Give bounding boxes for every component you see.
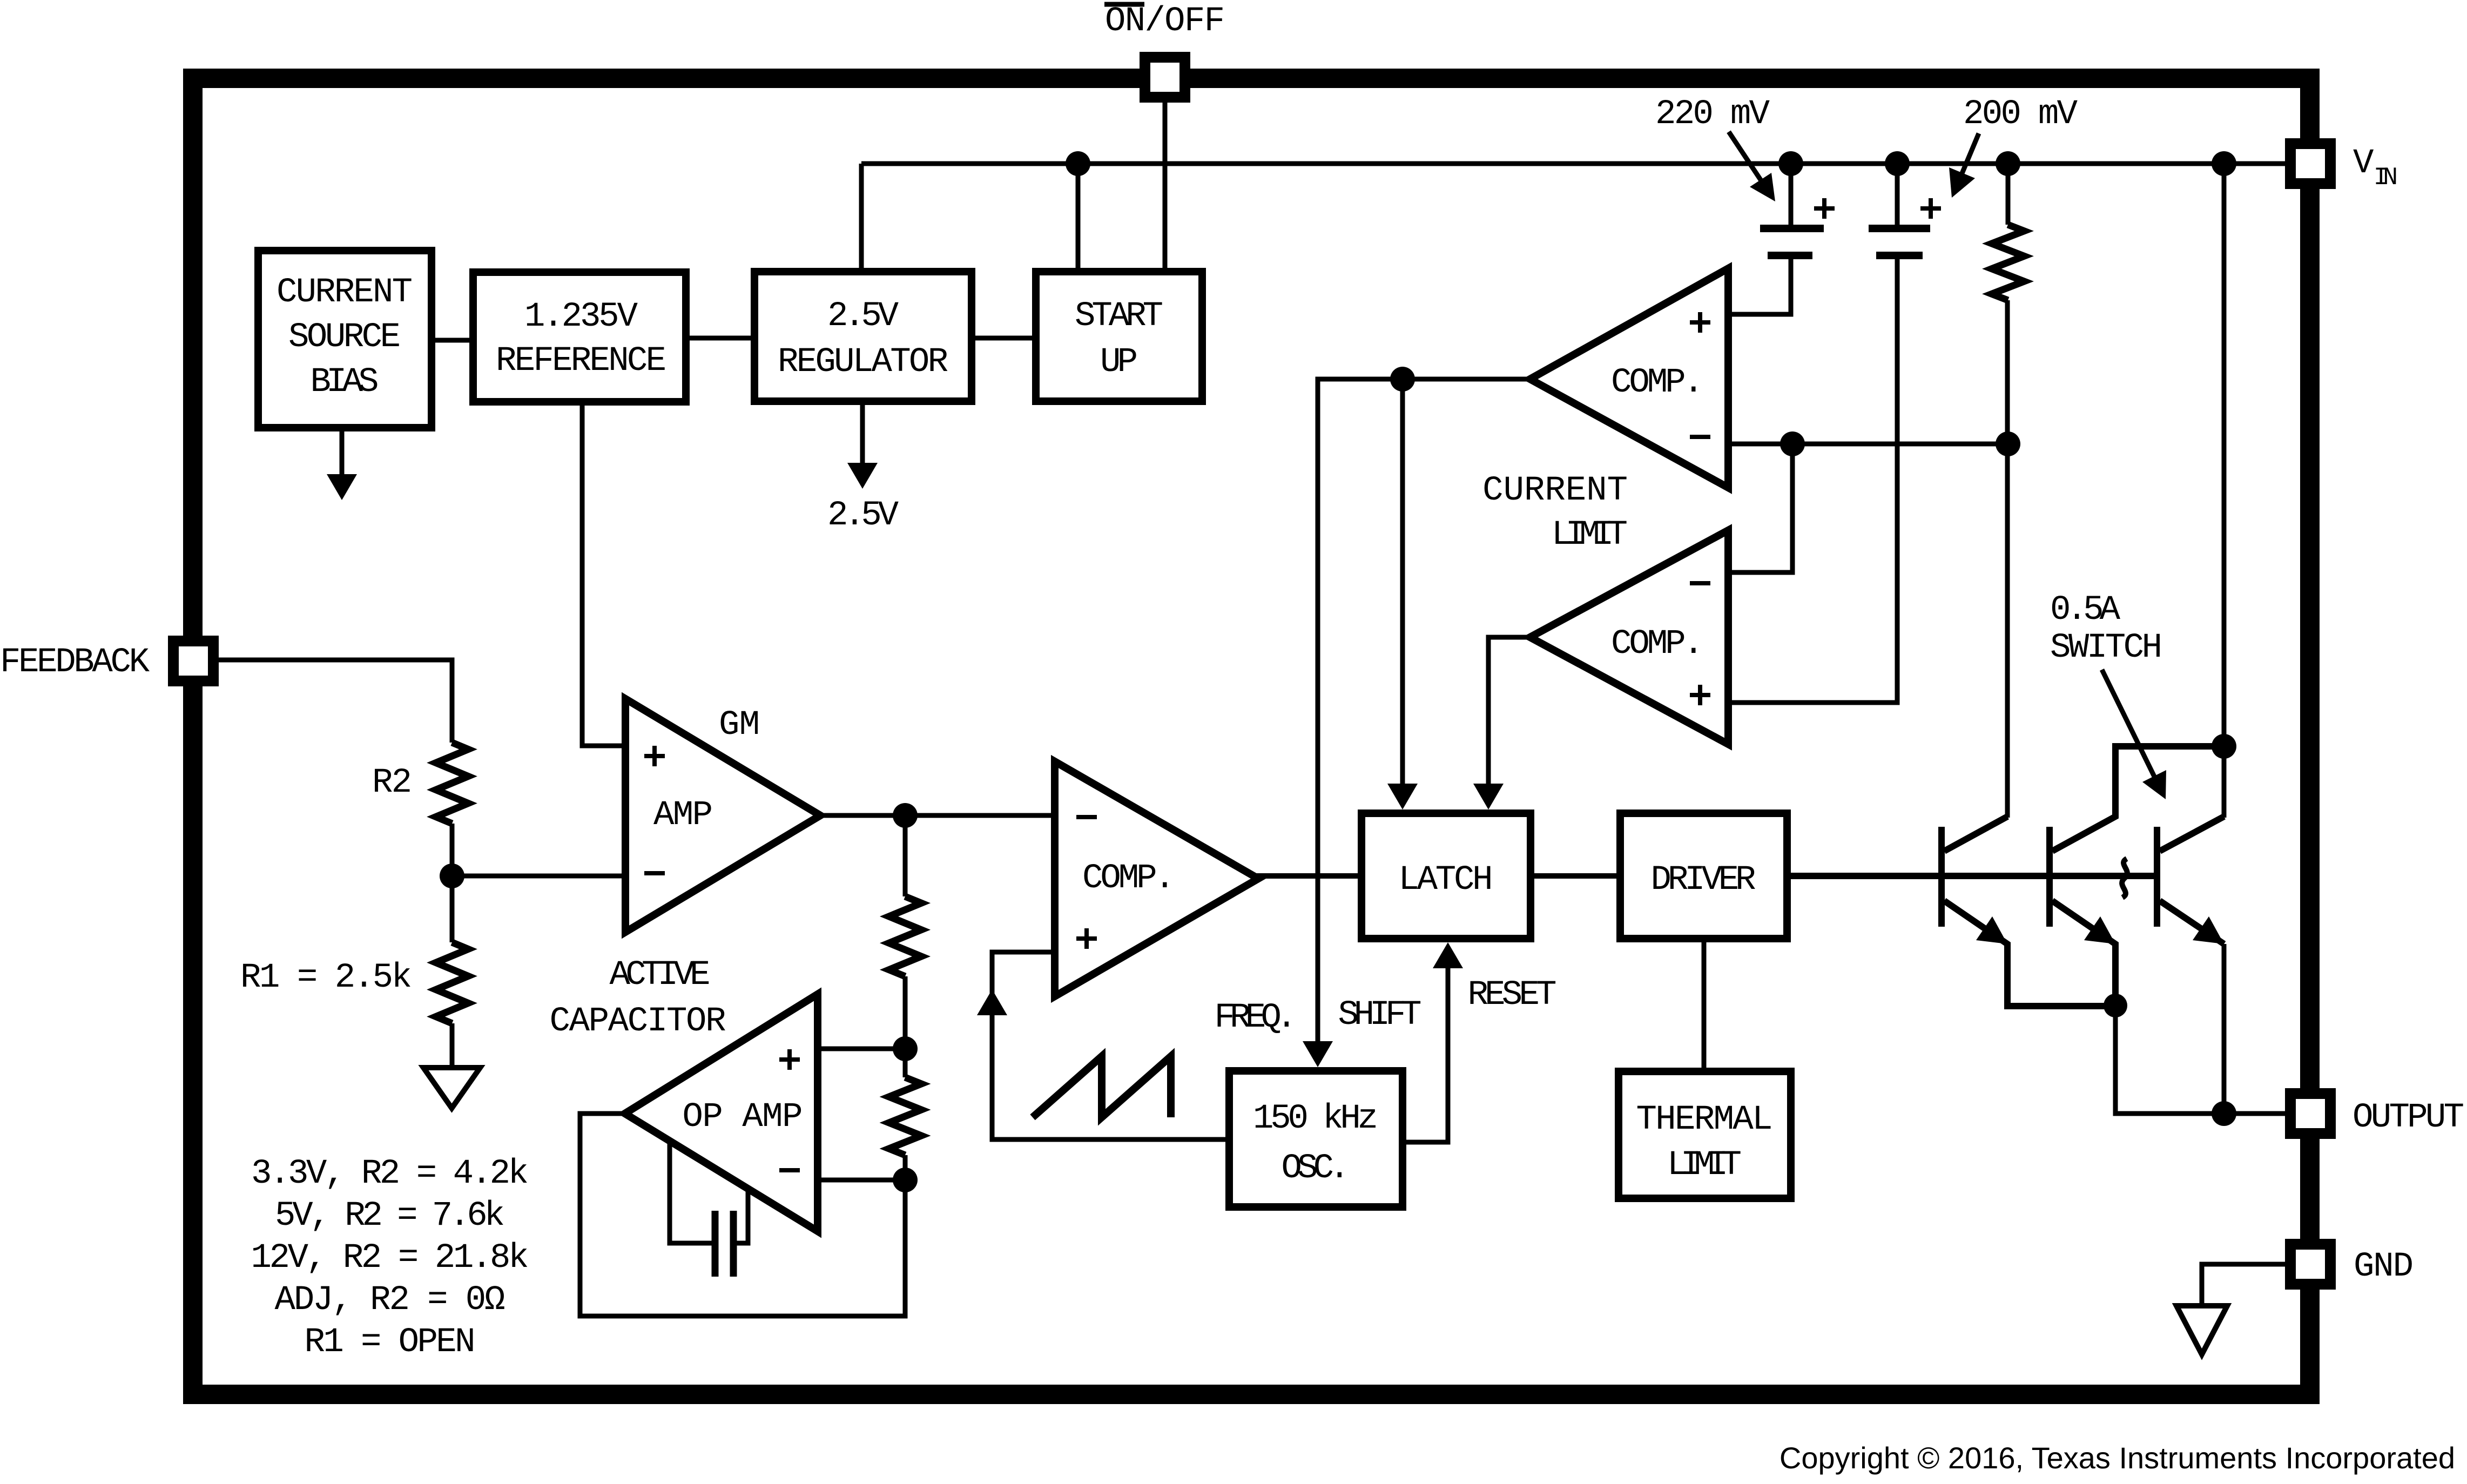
wire opamp plus input xyxy=(818,1047,905,1051)
junction node opamp plus tap xyxy=(893,1036,918,1061)
wire opamp cap left branch xyxy=(670,1141,712,1243)
pin OUTPUT xyxy=(2290,1094,2330,1134)
svg-text:GM: GM xyxy=(719,706,760,745)
minus sign main COMP xyxy=(1076,815,1097,819)
block 2.5V REGULATOR xyxy=(754,272,972,401)
wire R1 bottom to ground xyxy=(450,1023,455,1068)
arrowhead Q1 emitter xyxy=(1976,916,2007,944)
pin VIN xyxy=(2290,144,2330,184)
transistor Q1 base bar xyxy=(1938,827,1945,927)
resistor at VIN 200mV sense xyxy=(1992,225,2024,300)
wire oscillator reset output to LATCH xyxy=(1406,950,1448,1142)
pin GND xyxy=(2290,1244,2330,1284)
svg-text:RESET: RESET xyxy=(1468,976,1557,1015)
junction node VIN rail at sense resistor xyxy=(1996,151,2020,176)
wire ON/OFF pin down to START UP xyxy=(1163,103,1168,268)
transistor Q2 base bar xyxy=(2046,827,2053,927)
wire GM AMP output to main COMP minus input xyxy=(819,813,1055,818)
comparator main COMP (PWM) xyxy=(1055,761,1258,996)
minus sign COMP2 xyxy=(1690,581,1710,585)
svg-text:COMP.: COMP. xyxy=(1611,625,1704,664)
wire VIN rail down to resistor RS xyxy=(2006,164,2011,225)
junction node COMP1 output xyxy=(1390,367,1415,392)
op-amp OP AMP active capacitor xyxy=(625,994,818,1231)
pointer line 220mV to C1 xyxy=(1729,132,1765,186)
svg-text:SWITCH: SWITCH xyxy=(2050,629,2162,667)
block CURRENT SOURCE BIAS xyxy=(258,251,432,428)
wire 2.5V REGULATOR to START UP xyxy=(975,336,1032,341)
svg-text:SHIFT: SHIFT xyxy=(1338,996,1422,1035)
resistor R1 xyxy=(436,942,468,1023)
svg-text:LIMIT: LIMIT xyxy=(1552,516,1628,555)
svg-text:5V, R2 = 7.6k: 5V, R2 = 7.6k xyxy=(275,1197,505,1236)
svg-text:LATCH: LATCH xyxy=(1399,861,1493,900)
svg-text:2.5V: 2.5V xyxy=(827,297,899,336)
wire main COMP output to LATCH xyxy=(1256,873,1358,879)
plus sign COMP2 xyxy=(1690,685,1710,705)
comparator COMP2 current limit lower xyxy=(1530,530,1728,744)
svg-text:2.5V: 2.5V xyxy=(827,496,899,535)
wire VIN rail horizontal xyxy=(861,161,2285,166)
svg-text:R1 = 2.5k: R1 = 2.5k xyxy=(240,959,412,997)
pin ON/OFF xyxy=(1145,57,1185,97)
arrowhead 2.5V down xyxy=(847,463,878,489)
arrowhead bias down xyxy=(327,474,357,500)
wire Q3 emitter down to output rail xyxy=(2222,944,2227,1114)
IC boundary border xyxy=(193,78,2310,1394)
wire junction to GM AMP minus input xyxy=(452,874,625,879)
wire COMP2 output to LATCH arrow xyxy=(1488,637,1530,788)
wire FEEDBACK pin to R2 xyxy=(217,660,452,743)
wire current limit COMP1 output to freq shift line xyxy=(1318,379,1530,1045)
arrowhead 200mV pointer xyxy=(1949,167,1975,198)
plus sign main COMP xyxy=(1076,928,1097,949)
block LATCH xyxy=(1361,813,1531,939)
arrowhead oscillator ramp up xyxy=(977,989,1007,1015)
svg-text:IN: IN xyxy=(2374,164,2398,192)
transistor Q2 emitter xyxy=(2052,901,2115,1006)
pointer line 0.5A switch to Q3 xyxy=(2102,670,2155,778)
svg-text:1.235V: 1.235V xyxy=(524,298,638,336)
junction node COMP1 minus at C2 branch xyxy=(1780,431,1805,456)
svg-text:200 mV: 200 mV xyxy=(1963,95,2078,134)
junction node R1 R2 divider xyxy=(440,864,464,888)
capacitor opamp plates xyxy=(712,1211,719,1277)
pointer line 200mV to C2 xyxy=(1958,133,1979,184)
minus sign GM xyxy=(644,871,665,875)
block 150 kHz OSC xyxy=(1229,1071,1403,1207)
svg-text:FEEDBACK: FEEDBACK xyxy=(0,643,150,682)
transistor Q1 collector xyxy=(1944,817,2007,851)
arrowhead 220mV pointer xyxy=(1750,173,1775,201)
svg-text:REFERENCE: REFERENCE xyxy=(496,342,666,381)
svg-text:COMP.: COMP. xyxy=(1611,363,1704,402)
junction node switch collector xyxy=(2212,734,2236,759)
transistor Q2 collector xyxy=(2052,746,2224,851)
transistor Q3 base bar xyxy=(2154,827,2160,927)
wire VIN rail down to switch collector line xyxy=(2222,164,2227,818)
wire 1.235V REFERENCE to 2.5V REGULATOR xyxy=(690,336,754,341)
svg-text:FREQ.: FREQ. xyxy=(1215,999,1297,1037)
svg-text:ACTIVE: ACTIVE xyxy=(610,956,711,995)
wire capacitor C1 to VIN rail xyxy=(1789,164,1794,228)
wire between opamp network resistors xyxy=(903,976,908,1077)
ground symbol below R1 xyxy=(423,1068,480,1108)
svg-text:R2: R2 xyxy=(372,764,412,802)
junction node emitters xyxy=(2104,994,2127,1017)
resistor opamp upper xyxy=(889,896,921,976)
arrowhead 0.5A switch pointer xyxy=(2142,770,2166,799)
junction node VIN rail at C1 xyxy=(1778,151,1803,176)
overline on ON xyxy=(1104,2,1144,7)
pin FEEDBACK xyxy=(173,641,213,681)
svg-text:150 kHz: 150 kHz xyxy=(1253,1099,1378,1138)
svg-text:GND: GND xyxy=(2354,1247,2414,1286)
svg-text:OUTPUT: OUTPUT xyxy=(2353,1098,2464,1137)
transistor Q1 emitter xyxy=(1944,901,2115,1006)
svg-text:220 mV: 220 mV xyxy=(1655,95,1770,134)
svg-text:CURRENT: CURRENT xyxy=(1482,471,1628,510)
junction node GM AMP output xyxy=(893,803,918,828)
svg-text:START: START xyxy=(1075,297,1163,336)
svg-text:THERMAL: THERMAL xyxy=(1636,1101,1773,1139)
wire COMP2 plus input to capacitor C2 xyxy=(1728,255,1897,703)
wire COMP1 minus junction down to COMP2 minus input xyxy=(1728,444,1792,572)
wire main COMP plus input from oscillator xyxy=(992,952,1225,1139)
junction node output rail xyxy=(2212,1101,2236,1126)
resistor R2 xyxy=(436,743,468,824)
transistor Q3 emitter xyxy=(2160,901,2224,944)
wire LATCH to DRIVER xyxy=(1534,873,1616,879)
op-amp GM AMP xyxy=(625,699,820,932)
svg-text:UP: UP xyxy=(1100,343,1138,382)
wire opamp cap right branch xyxy=(737,1188,748,1243)
svg-text:OP AMP: OP AMP xyxy=(683,1098,803,1137)
plus sign C1 xyxy=(1814,198,1835,219)
plus sign C2 xyxy=(1920,198,1941,219)
svg-text:OSC.: OSC. xyxy=(1282,1149,1350,1188)
sawtooth waveform xyxy=(1033,1056,1171,1117)
block START UP xyxy=(1036,272,1202,401)
minus sign OP AMP xyxy=(779,1168,800,1172)
arrowhead into LATCH from COMP1 xyxy=(1387,784,1418,810)
svg-text:ADJ, R2 = 0Ω: ADJ, R2 = 0Ω xyxy=(275,1281,505,1320)
svg-text:3.3V, R2 = 4.2k: 3.3V, R2 = 4.2k xyxy=(251,1155,529,1193)
junction node COMP1 minus at sense resistor xyxy=(1996,431,2020,456)
svg-text:0.5A: 0.5A xyxy=(2050,591,2121,630)
arrowhead into LATCH from COMP2 xyxy=(1473,784,1504,810)
wire COMP1 plus input to capacitor C1 xyxy=(1728,255,1791,314)
ground symbol at GND pin xyxy=(2176,1306,2227,1354)
svg-text:SOURCE: SOURCE xyxy=(288,318,401,357)
svg-text:LIMIT: LIMIT xyxy=(1667,1146,1742,1185)
plus sign GM xyxy=(644,746,665,766)
plus sign OP AMP xyxy=(779,1049,800,1070)
wire resistor RS down to COMP1 minus rail and Q1 collector xyxy=(2005,300,2010,818)
block DRIVER xyxy=(1620,813,1787,939)
wire R2 bottom to junction xyxy=(450,824,455,942)
junction node opamp minus tap xyxy=(893,1168,918,1192)
wire start-up branch from VIN rail xyxy=(1076,164,1081,268)
capacitor C2 200mV plates xyxy=(1869,225,1930,232)
arrowhead Q2 emitter xyxy=(2084,916,2115,944)
wire continuation squiggle near Q3 base xyxy=(2122,859,2127,898)
wire opamp network lower resistor to feedback bottom xyxy=(580,1114,905,1316)
transistor Q3 collector xyxy=(2160,817,2224,851)
wire VIN rail corner down to 2.5V regulator xyxy=(859,164,864,268)
wire capacitor C2 to VIN rail xyxy=(1895,164,1900,228)
svg-text:V: V xyxy=(2353,144,2374,183)
wire reference down to GM AMP plus input xyxy=(582,406,625,746)
wire GM output junction down to opamp network top xyxy=(903,815,908,896)
svg-text:COMP.: COMP. xyxy=(1082,859,1175,898)
junction node VIN rail at switch collector xyxy=(2212,151,2236,176)
wire opamp minus input xyxy=(818,1178,905,1183)
junction node VIN rail at C2 xyxy=(1885,151,1910,176)
wire CURRENT SOURCE BIAS to 1.235V REFERENCE xyxy=(435,338,469,343)
resistor opamp lower xyxy=(889,1077,921,1155)
svg-text:DRIVER: DRIVER xyxy=(1651,861,1756,900)
block 1.235V REFERENCE xyxy=(473,272,686,402)
arrowhead freq shift into OSC top xyxy=(1303,1041,1333,1067)
minus sign COMP1 xyxy=(1690,435,1710,439)
wire 2.5V arrow stem xyxy=(860,401,865,465)
svg-text:BIAS: BIAS xyxy=(311,363,379,402)
block THERMAL LIMIT xyxy=(1619,1071,1791,1198)
wire GND pin to ground symbol xyxy=(2202,1264,2285,1306)
capacitor C1 220mV plates xyxy=(1760,225,1824,232)
svg-text:12V, R2 = 21.8k: 12V, R2 = 21.8k xyxy=(251,1239,529,1278)
wire COMP1 minus input rail xyxy=(1728,442,2008,447)
svg-text:CAPACITOR: CAPACITOR xyxy=(550,1002,726,1041)
junction node on VIN rail at start-up branch xyxy=(1066,151,1090,176)
svg-text:REGULATOR: REGULATOR xyxy=(778,343,948,382)
wire emitter junction to OUTPUT pin xyxy=(2115,1006,2285,1114)
svg-text:R1 = OPEN: R1 = OPEN xyxy=(305,1323,476,1362)
svg-text:Copyright © 2016, Texas Instru: Copyright © 2016, Texas Instruments Inco… xyxy=(1780,1441,2455,1475)
arrowhead RESET into LATCH bottom xyxy=(1433,942,1463,968)
wire COMP1 output junction down to LATCH arrow xyxy=(1400,379,1405,788)
svg-text:AMP: AMP xyxy=(653,796,713,835)
svg-text:CURRENT: CURRENT xyxy=(277,273,413,312)
svg-text:ON/OFF: ON/OFF xyxy=(1105,2,1225,41)
wire bias arrow stem xyxy=(340,428,345,476)
arrowhead Q3 emitter xyxy=(2193,916,2224,944)
comparator COMP1 current limit upper xyxy=(1530,268,1728,488)
wire DRIVER down to THERMAL LIMIT xyxy=(1702,942,1707,1068)
plus sign COMP1 xyxy=(1690,312,1710,333)
wire DRIVER to switch transistor bases xyxy=(1791,873,2157,879)
